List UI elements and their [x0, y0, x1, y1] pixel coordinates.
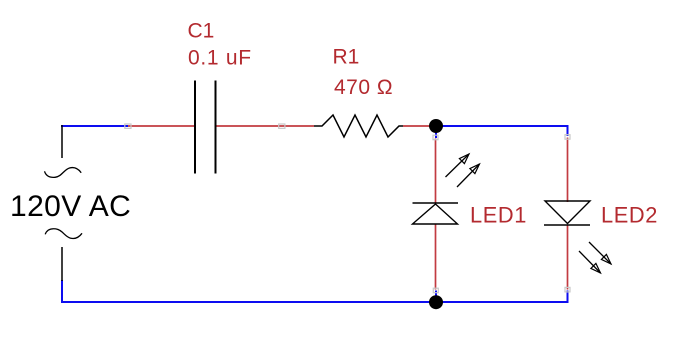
- LED1 triangle: [413, 204, 458, 224]
- wire top-left blue: [61, 125, 128, 127]
- svg-text:LED2: LED2: [601, 203, 658, 228]
- AC source V1 lower tilde: [45, 229, 82, 239]
- pin marker (cap C1 pin 2): [279, 124, 285, 128]
- pin marker (LED2 bottom pin): [565, 287, 570, 292]
- LED1 emission arrow upper: [446, 154, 470, 177]
- AC source V1 top lead: [61, 125, 63, 158]
- LED2 anode bar: [544, 224, 590, 226]
- wire red: LED1 top lead: [435, 139, 437, 204]
- pin marker (cap C1 pin 1): [125, 124, 131, 128]
- wire top-right blue (junction to right corner): [436, 126, 568, 136]
- pin marker (LED1 bottom pin): [433, 288, 438, 293]
- svg-text:R1: R1: [333, 45, 360, 68]
- LED2 emission arrow upper: [589, 242, 611, 264]
- svg-text:LED1: LED1: [470, 203, 527, 228]
- wire red: resistor to junction: [403, 125, 432, 127]
- wire red: LED2 top lead: [567, 138, 569, 203]
- pin marker (LED2 top pin): [565, 135, 570, 140]
- capacitor C1 left plate: [194, 81, 196, 174]
- AC source V1 upper tilde: [45, 168, 82, 178]
- wire red: cap left lead: [128, 125, 194, 127]
- svg-text:C1: C1: [188, 20, 215, 43]
- svg-text:470 Ω: 470 Ω: [334, 76, 393, 99]
- LED2 triangle: [545, 201, 590, 224]
- junction dot top: [429, 119, 443, 133]
- resistor R1 body: [314, 115, 403, 137]
- wire stub above bottom junction blue: [435, 291, 437, 303]
- wire red: cap right lead to resistor: [217, 125, 315, 127]
- junction dot bottom: [429, 295, 443, 309]
- LED1 cathode bar: [413, 202, 459, 204]
- capacitor C1 right plate: [215, 81, 217, 174]
- wire stub below top junction blue: [435, 126, 437, 138]
- svg-text:120V AC: 120V AC: [10, 190, 131, 223]
- wire red: LED2 bottom lead: [567, 225, 569, 290]
- pin marker (LED1 top pin): [433, 135, 438, 140]
- wire bottom blue: [62, 280, 568, 302]
- svg-text:0.1 uF: 0.1 uF: [188, 46, 252, 69]
- LED2 emission arrow lower: [579, 251, 601, 273]
- wire red: LED1 bottom lead: [435, 224, 437, 290]
- AC source V1 bottom lead: [61, 247, 63, 281]
- LED1 emission arrow lower: [457, 164, 480, 187]
